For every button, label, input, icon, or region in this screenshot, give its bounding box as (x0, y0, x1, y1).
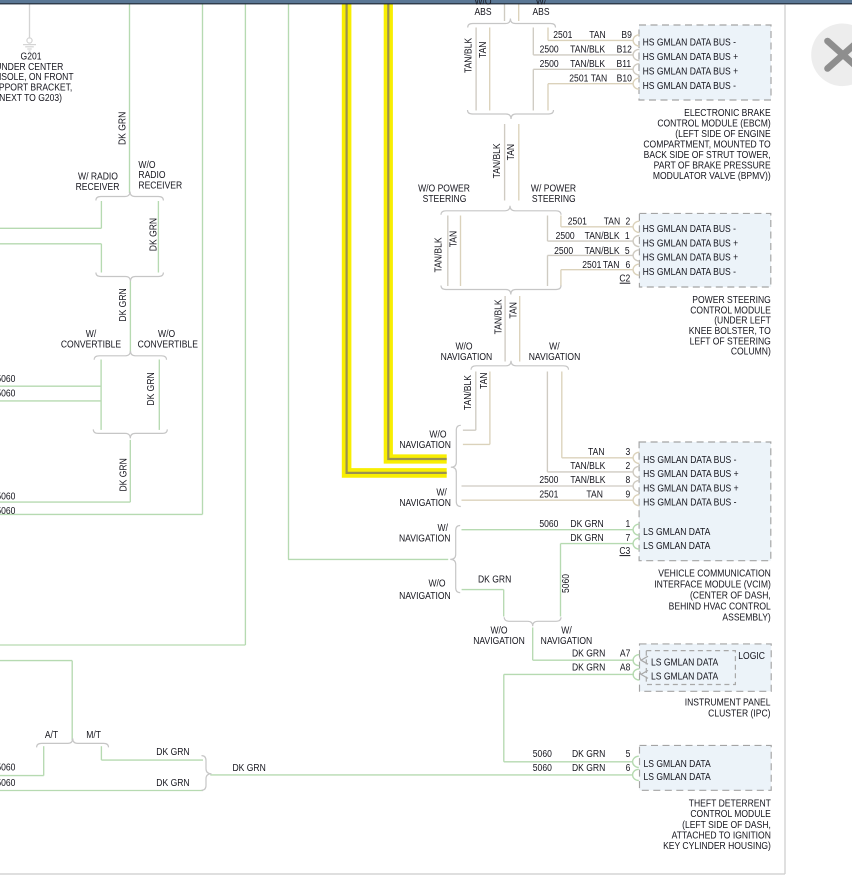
svg-text:TAN/BLK: TAN/BLK (462, 374, 474, 410)
svg-text:5060: 5060 (533, 748, 552, 760)
svg-text:TAN/BLK: TAN/BLK (570, 58, 606, 70)
svg-text:NAVIGATION: NAVIGATION (399, 533, 451, 545)
svg-text:5060: 5060 (560, 574, 572, 593)
svg-text:B10: B10 (617, 73, 632, 85)
svg-text:5060: 5060 (0, 491, 15, 503)
svg-text:CLUSTER (IPC): CLUSTER (IPC) (708, 708, 770, 720)
svg-text:DK GRN: DK GRN (148, 218, 160, 251)
svg-text:LS GMLAN DATA: LS GMLAN DATA (651, 671, 719, 683)
svg-text:A/T: A/T (45, 729, 58, 741)
svg-text:5: 5 (625, 245, 630, 257)
svg-text:2: 2 (626, 460, 631, 472)
svg-text:STEERING: STEERING (532, 193, 576, 205)
svg-text:NAVIGATION: NAVIGATION (441, 351, 493, 363)
svg-text:7: 7 (626, 532, 631, 544)
svg-text:TAN: TAN (591, 73, 608, 85)
svg-text:2500: 2500 (540, 58, 559, 70)
svg-text:TAN: TAN (588, 446, 605, 458)
svg-text:5060: 5060 (0, 388, 15, 400)
svg-text:NAVIGATION: NAVIGATION (399, 439, 451, 451)
svg-text:W/O: W/O (428, 578, 445, 590)
svg-text:DK GRN: DK GRN (572, 662, 605, 674)
svg-text:2: 2 (626, 216, 631, 228)
svg-text:HS GMLAN DATA BUS +: HS GMLAN DATA BUS + (643, 468, 739, 480)
svg-text:TAN/BLK: TAN/BLK (570, 44, 606, 56)
svg-text:HS GMLAN DATA BUS +: HS GMLAN DATA BUS + (643, 238, 739, 250)
svg-text:1: 1 (626, 518, 631, 530)
svg-text:2501: 2501 (553, 29, 572, 41)
svg-text:HS GMLAN DATA BUS -: HS GMLAN DATA BUS - (643, 497, 736, 509)
svg-text:DK GRN: DK GRN (572, 648, 605, 660)
svg-text:LS GMLAN DATA: LS GMLAN DATA (643, 526, 711, 538)
svg-text:DK GRN: DK GRN (117, 112, 129, 145)
svg-text:DK GRN: DK GRN (117, 288, 129, 321)
svg-text:TAN/BLK: TAN/BLK (570, 474, 606, 486)
svg-text:TAN: TAN (477, 41, 489, 58)
svg-text:A8: A8 (620, 662, 630, 674)
svg-text:2500: 2500 (556, 230, 575, 242)
svg-text:6: 6 (626, 762, 631, 774)
svg-text:TAN/BLK: TAN/BLK (570, 460, 606, 472)
svg-text:2500: 2500 (554, 245, 573, 257)
svg-text:DK GRN: DK GRN (572, 748, 605, 760)
svg-text:LS GMLAN DATA: LS GMLAN DATA (651, 657, 719, 669)
svg-text:TAN/BLK: TAN/BLK (585, 245, 621, 257)
svg-text:NAVIGATION: NAVIGATION (399, 497, 451, 509)
svg-text:HS GMLAN DATA BUS -: HS GMLAN DATA BUS - (643, 223, 736, 235)
svg-text:8: 8 (626, 474, 631, 486)
svg-text:B9: B9 (621, 29, 631, 41)
svg-text:TAN/BLK: TAN/BLK (433, 237, 445, 273)
svg-text:HS GMLAN DATA BUS -: HS GMLAN DATA BUS - (643, 454, 736, 466)
svg-text:5060: 5060 (533, 762, 552, 774)
svg-text:5: 5 (626, 748, 631, 760)
svg-text:DK GRN: DK GRN (156, 777, 189, 789)
svg-text:5060: 5060 (539, 518, 558, 530)
svg-text:DK GRN: DK GRN (570, 532, 603, 544)
svg-text:DK GRN: DK GRN (156, 746, 189, 758)
svg-text:9: 9 (626, 489, 631, 501)
svg-text:NAVIGATION: NAVIGATION (473, 635, 525, 647)
svg-text:5060: 5060 (0, 373, 15, 385)
svg-text:5060: 5060 (0, 777, 15, 789)
svg-text:2501: 2501 (568, 216, 587, 228)
svg-text:B11: B11 (617, 58, 632, 70)
svg-text:MODULATOR VALVE (BPMV)): MODULATOR VALVE (BPMV)) (653, 170, 771, 182)
svg-text:HS GMLAN DATA BUS +: HS GMLAN DATA BUS + (643, 483, 739, 495)
svg-text:DK GRN: DK GRN (478, 574, 511, 586)
svg-text:TAN/BLK: TAN/BLK (463, 37, 475, 73)
svg-text:6: 6 (626, 259, 631, 271)
svg-text:TAN: TAN (478, 372, 490, 389)
svg-text:RECEIVER: RECEIVER (76, 181, 120, 193)
svg-text:KEY CYLINDER HOUSING): KEY CYLINDER HOUSING) (663, 840, 771, 852)
svg-text:1: 1 (625, 230, 630, 242)
svg-text:DK GRN: DK GRN (570, 518, 603, 530)
svg-text:HS GMLAN DATA BUS -: HS GMLAN DATA BUS - (643, 80, 736, 92)
svg-text:TAN: TAN (508, 302, 520, 319)
svg-text:HS GMLAN DATA BUS -: HS GMLAN DATA BUS - (643, 266, 736, 278)
svg-text:ABS: ABS (532, 6, 549, 18)
svg-text:TAN: TAN (603, 259, 620, 271)
svg-text:2501: 2501 (539, 489, 558, 501)
svg-text:DK GRN: DK GRN (145, 372, 157, 405)
svg-text:DK GRN: DK GRN (233, 762, 266, 774)
svg-text:LS GMLAN DATA: LS GMLAN DATA (644, 771, 712, 783)
svg-text:TAN/BLK: TAN/BLK (491, 143, 503, 179)
svg-text:TAN: TAN (505, 144, 517, 161)
svg-text:2500: 2500 (540, 44, 559, 56)
svg-text:NAVIGATION: NAVIGATION (541, 635, 593, 647)
svg-text:TAN/BLK: TAN/BLK (493, 299, 505, 335)
svg-text:ABS: ABS (474, 6, 491, 18)
svg-text:CONVERTIBLE: CONVERTIBLE (138, 339, 198, 351)
svg-text:NAVIGATION: NAVIGATION (529, 351, 581, 363)
svg-text:COLUMN): COLUMN) (731, 346, 771, 358)
svg-text:ASSEMBLY): ASSEMBLY) (722, 612, 770, 624)
svg-text:NEXT TO G203): NEXT TO G203) (0, 92, 62, 104)
svg-text:NAVIGATION: NAVIGATION (399, 590, 451, 602)
svg-text:DK GRN: DK GRN (118, 458, 130, 491)
svg-text:LOGIC: LOGIC (738, 650, 765, 662)
svg-text:RECEIVER: RECEIVER (138, 180, 182, 192)
svg-text:5060: 5060 (0, 762, 15, 774)
svg-text:TAN: TAN (586, 489, 603, 501)
svg-text:TAN: TAN (448, 231, 460, 248)
svg-text:DK GRN: DK GRN (572, 762, 605, 774)
svg-text:TAN: TAN (589, 29, 606, 41)
svg-text:2501: 2501 (582, 259, 601, 271)
svg-text:5060: 5060 (0, 505, 15, 517)
svg-text:A7: A7 (620, 648, 630, 660)
svg-text:STEERING: STEERING (423, 193, 467, 205)
svg-text:HS GMLAN DATA BUS +: HS GMLAN DATA BUS + (643, 252, 739, 264)
svg-text:2501: 2501 (569, 73, 588, 85)
svg-text:2500: 2500 (539, 474, 558, 486)
svg-text:HS GMLAN DATA BUS +: HS GMLAN DATA BUS + (643, 66, 739, 78)
svg-text:HS GMLAN DATA BUS +: HS GMLAN DATA BUS + (643, 51, 739, 63)
svg-text:LS GMLAN DATA: LS GMLAN DATA (643, 540, 711, 552)
svg-text:M/T: M/T (86, 729, 101, 741)
svg-text:HS GMLAN DATA BUS -: HS GMLAN DATA BUS - (643, 37, 736, 49)
svg-text:TAN/BLK: TAN/BLK (585, 230, 621, 242)
svg-text:3: 3 (626, 446, 631, 458)
svg-text:LS GMLAN DATA: LS GMLAN DATA (644, 758, 712, 770)
svg-text:TAN: TAN (604, 216, 621, 228)
svg-text:CONVERTIBLE: CONVERTIBLE (61, 339, 121, 351)
svg-text:B12: B12 (617, 44, 632, 56)
